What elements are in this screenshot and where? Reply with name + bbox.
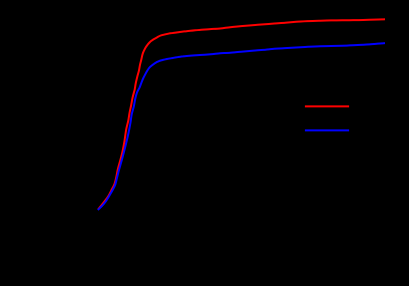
red curve: [98, 19, 385, 209]
legend blue line: [305, 129, 349, 131]
legend red line: [305, 105, 349, 107]
blue curve: [98, 43, 385, 210]
